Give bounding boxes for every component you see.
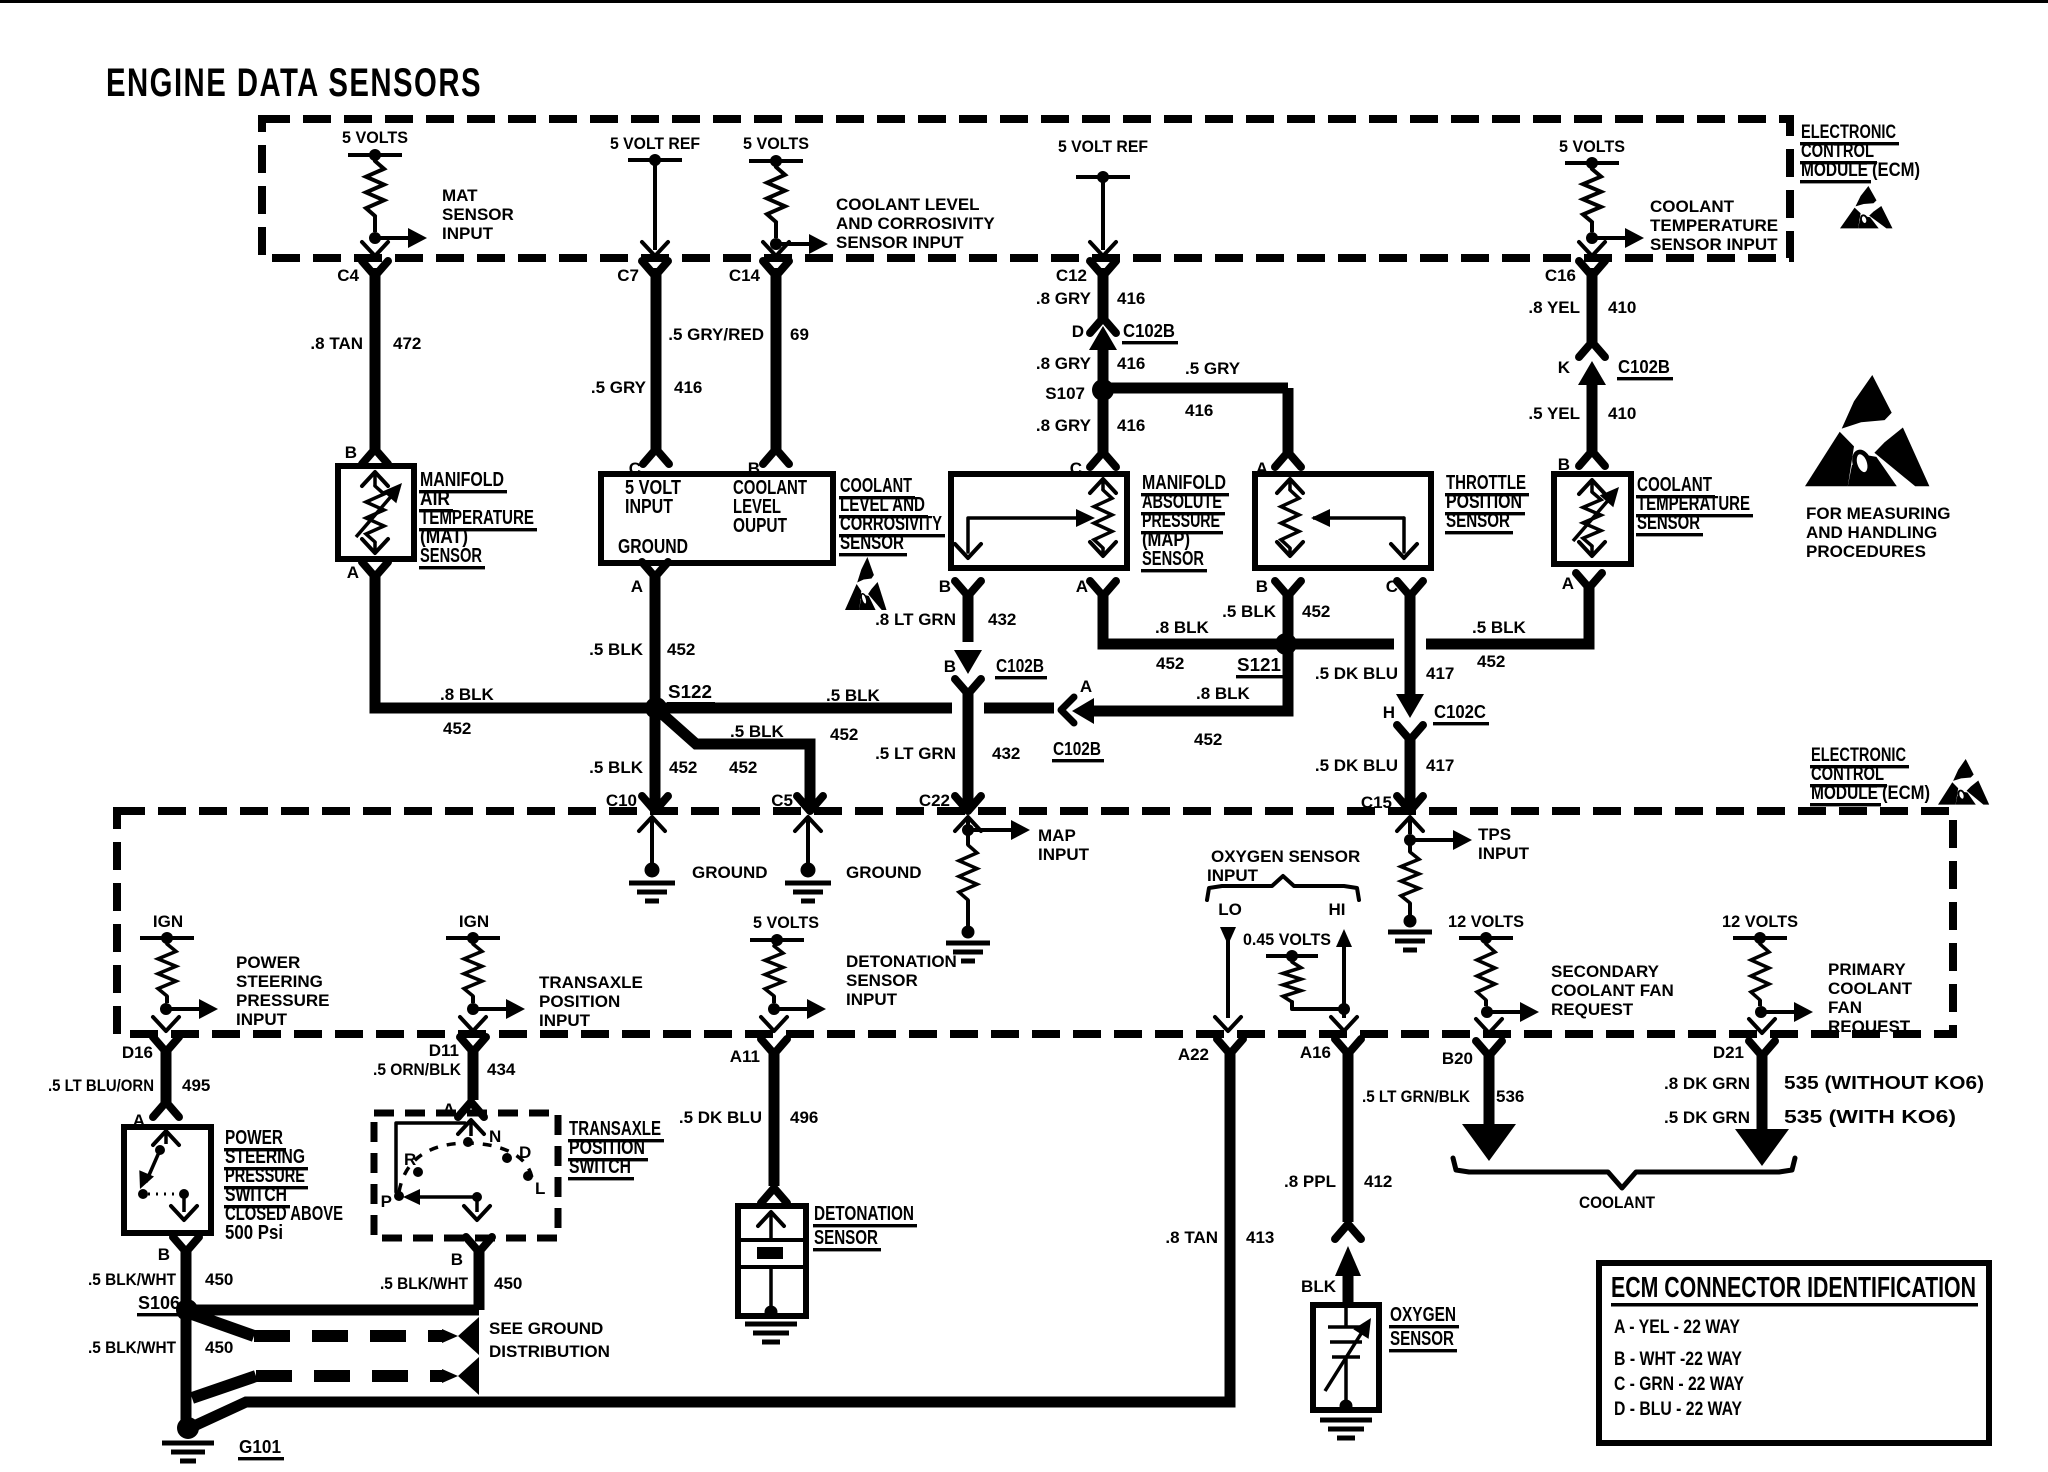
svg-text:.8 LT GRN: .8 LT GRN	[875, 610, 956, 629]
label A (MAT)	[347, 563, 359, 582]
IGN feed (transaxle)	[446, 912, 500, 944]
svg-text:GROUND: GROUND	[846, 863, 922, 882]
svg-text:.5 LT GRN: .5 LT GRN	[875, 744, 956, 763]
svg-text:OXYGEN: OXYGEN	[1390, 1304, 1456, 1326]
svg-text:INPUT: INPUT	[846, 990, 898, 1009]
label .8 BLK 452 (MAP A)	[1155, 618, 1210, 673]
coolant temp internal thermistor	[1573, 480, 1619, 556]
label .5 YEL 410	[1528, 404, 1636, 423]
label FOR MEASURING AND HANDLING PROCEDURES	[1806, 504, 1951, 561]
svg-text:410: 410	[1608, 298, 1636, 317]
svg-text:G101: G101	[239, 1437, 281, 1457]
svg-text:413: 413	[1246, 1228, 1274, 1247]
coolant level A fork	[642, 562, 668, 577]
label .5 LT GRN 432	[875, 744, 1020, 763]
ground MAP input	[946, 943, 990, 961]
primary fan down-arrow	[1749, 1019, 1775, 1033]
svg-text:BLK: BLK	[1301, 1277, 1337, 1296]
svg-text:REQUEST: REQUEST	[1828, 1017, 1911, 1036]
svg-text:C102B: C102B	[1123, 321, 1175, 341]
TPS sensor box	[1255, 474, 1431, 568]
wire TPS B to S121 (.5 BLK 452)	[1283, 590, 1294, 640]
label K C102B	[1558, 357, 1673, 380]
TPS B fork	[1275, 581, 1301, 596]
svg-text:MAT: MAT	[442, 186, 478, 205]
svg-text:0.45 VOLTS: 0.45 VOLTS	[1243, 930, 1331, 949]
svg-text:5 VOLTS: 5 VOLTS	[753, 913, 819, 932]
svg-text:412: 412	[1364, 1172, 1392, 1191]
svg-text:D21: D21	[1713, 1043, 1744, 1062]
wire MAT A to S122 (.8 BLK 452)	[375, 571, 650, 708]
svg-text:A: A	[347, 563, 359, 582]
label C (coolant level)	[629, 459, 641, 478]
svg-text:GROUND: GROUND	[618, 536, 688, 558]
page top border line	[0, 0, 2048, 3]
label B (TPS)	[1256, 577, 1268, 596]
label .5 BLK 452 lower	[589, 758, 697, 777]
label GROUND (C10)	[692, 863, 768, 882]
svg-text:410: 410	[1608, 404, 1636, 423]
svg-text:452: 452	[1302, 602, 1330, 621]
svg-text:B20: B20	[1442, 1049, 1473, 1068]
svg-text:535 (WITH KO6): 535 (WITH KO6)	[1784, 1107, 1956, 1127]
label .8 DK GRN 535 (WITHOUT KO6)	[1664, 1073, 1984, 1093]
coolant temp A fork	[1576, 573, 1602, 588]
5 VOLTS feed (coolant temp)	[1559, 137, 1625, 169]
label COOLANT	[1579, 1193, 1656, 1212]
tap arrow transaxle input	[467, 999, 525, 1019]
svg-text:535 (WITHOUT KO6): 535 (WITHOUT KO6)	[1784, 1073, 1984, 1093]
svg-text:B: B	[451, 1250, 463, 1269]
svg-text:5 VOLTS: 5 VOLTS	[1559, 137, 1625, 156]
tap arrow MAT SENSOR INPUT	[369, 228, 427, 248]
label G101	[238, 1437, 284, 1460]
label .5 GRY/RED 69	[668, 325, 809, 344]
wire A11 to detonation (.5 DK BLU 496)	[761, 1048, 787, 1203]
ground TPS input	[1388, 932, 1432, 950]
label A (MAP)	[1076, 577, 1088, 596]
label D C102B	[1072, 321, 1178, 344]
svg-text:A: A	[1080, 677, 1092, 696]
ECM pin C14	[729, 261, 789, 285]
label H C102C	[1383, 702, 1489, 725]
label R	[404, 1150, 416, 1169]
svg-text:5 VOLT REF: 5 VOLT REF	[1058, 137, 1148, 156]
svg-text:.5 BLK/WHT: .5 BLK/WHT	[380, 1274, 469, 1293]
wire S106 to G101 (.5 BLK/WHT 450)	[181, 1310, 192, 1424]
svg-text:(ECM): (ECM)	[1872, 160, 1920, 181]
svg-text:COOLANT: COOLANT	[1828, 979, 1913, 998]
svg-text:PROCEDURES: PROCEDURES	[1806, 542, 1926, 561]
label OXYGEN SENSOR	[1389, 1304, 1459, 1352]
label C102B (horiz)	[1052, 739, 1104, 762]
ground detonation sensor	[745, 1324, 797, 1342]
wire 5V coolant temp down-arrow	[1579, 242, 1605, 256]
splice S106	[176, 1299, 198, 1321]
oxygen input brace	[1207, 876, 1359, 900]
svg-text:K: K	[1558, 358, 1571, 377]
label .5 BLK/WHT 450 (transaxle)	[380, 1274, 522, 1293]
label A (TPS)	[1256, 459, 1268, 478]
resistor 5V coolant temp	[1583, 169, 1601, 232]
tap arrow coolant temp sensor input	[1586, 228, 1644, 248]
dashed ground run 1	[192, 1314, 444, 1336]
svg-text:A: A	[1562, 574, 1574, 593]
ECM 1 label ELECTRONIC CONTROL MODULE (ECM)	[1800, 122, 1920, 183]
svg-text:416: 416	[674, 378, 702, 397]
svg-text:C7: C7	[617, 266, 639, 285]
wire A16 (.5 LT GRN/BLK ... .8 PPL 412)	[1335, 1048, 1361, 1239]
label .5 BLK/WHT 450 (G101)	[88, 1338, 233, 1357]
svg-text:SECONDARY: SECONDARY	[1551, 962, 1660, 981]
label B (PSP)	[158, 1245, 170, 1264]
svg-text:.5 BLK: .5 BLK	[1222, 602, 1277, 621]
power steering pressure switch box	[124, 1127, 211, 1233]
svg-text:D16: D16	[122, 1043, 153, 1062]
svg-text:SENSOR: SENSOR	[846, 971, 918, 990]
PSP switch internals	[138, 1131, 197, 1220]
svg-text:.5 DK BLU: .5 DK BLU	[1315, 664, 1398, 683]
label D	[519, 1143, 531, 1162]
wire S107 to TPS A (.5 GRY 416)	[1109, 388, 1301, 467]
label .5 DK GRN 535 (WITH KO6)	[1664, 1107, 1956, 1127]
svg-text:B: B	[1256, 577, 1268, 596]
svg-text:ELECTRONIC: ELECTRONIC	[1811, 745, 1906, 766]
splice S122	[645, 697, 667, 719]
svg-text:OUPUT: OUPUT	[733, 515, 787, 537]
wire MAP A to S121 (.8 BLK 452)	[1103, 590, 1280, 644]
ECM pin C4	[337, 261, 388, 285]
svg-text:SENSOR INPUT: SENSOR INPUT	[836, 233, 964, 252]
label B C102B (MAP wire)	[944, 656, 1047, 679]
svg-text:SENSOR INPUT: SENSOR INPUT	[1650, 235, 1778, 254]
ECM pin D11	[429, 1037, 486, 1060]
oxygen sensor BLK arrow	[1335, 1246, 1361, 1303]
svg-text:.8 GRY: .8 GRY	[1036, 354, 1092, 373]
svg-text:OXYGEN SENSOR: OXYGEN SENSOR	[1211, 847, 1360, 866]
label B (coolant temp)	[1558, 455, 1570, 474]
svg-text:SENSOR: SENSOR	[1446, 510, 1510, 532]
tap arrow primary fan	[1755, 1002, 1813, 1022]
label GROUND (C5)	[846, 863, 922, 882]
svg-text:.5 BLK/WHT: .5 BLK/WHT	[88, 1270, 177, 1289]
resistor 5V MAT	[366, 161, 384, 232]
svg-text:FOR MEASURING: FOR MEASURING	[1806, 504, 1951, 523]
resistor MAP input	[959, 830, 977, 939]
label L	[535, 1179, 545, 1198]
detonation sensor box	[738, 1206, 806, 1319]
svg-text:LO: LO	[1218, 900, 1242, 919]
svg-text:L: L	[535, 1179, 545, 1198]
svg-text:417: 417	[1426, 664, 1454, 683]
svg-text:COOLANT FAN: COOLANT FAN	[1551, 981, 1674, 1000]
svg-text:MAP: MAP	[1038, 826, 1076, 845]
svg-text:STEERING: STEERING	[236, 972, 323, 991]
svg-text:S106: S106	[138, 1293, 180, 1313]
dashed ground run 2	[192, 1376, 444, 1398]
svg-text:TPS: TPS	[1478, 825, 1511, 844]
svg-text:.8 DK GRN: .8 DK GRN	[1664, 1074, 1750, 1093]
svg-text:417: 417	[1426, 756, 1454, 775]
svg-text:452: 452	[1477, 652, 1505, 671]
svg-text:PRIMARY: PRIMARY	[1828, 960, 1906, 979]
detonation input down-arrow	[761, 1017, 787, 1031]
svg-text:ECM CONNECTOR IDENTIFICATION: ECM CONNECTOR IDENTIFICATION	[1611, 1272, 1976, 1304]
svg-text:INPUT: INPUT	[625, 496, 673, 518]
svg-text:.5 BLK: .5 BLK	[589, 758, 644, 777]
label MAT SENSOR INPUT	[442, 186, 514, 243]
12 VOLTS feed (primary fan)	[1722, 912, 1798, 944]
wire S121 to coolant temp A (.5 BLK 452)	[1292, 584, 1589, 644]
wire 5V REF C12	[1090, 177, 1116, 256]
resistor 12V primary	[1751, 944, 1769, 1006]
svg-text:SENSOR: SENSOR	[814, 1227, 878, 1249]
label .8 TAN 413	[1165, 1228, 1274, 1247]
transaxle switch internals	[394, 1120, 533, 1220]
label DETONATION SENSOR	[813, 1203, 917, 1251]
resistor 12V secondary	[1477, 944, 1495, 1006]
ESD symbol at coolant level sensor	[845, 557, 887, 610]
svg-text:B: B	[345, 443, 357, 462]
label S122	[667, 682, 715, 705]
label N	[489, 1127, 501, 1146]
svg-text:IGN: IGN	[459, 912, 489, 931]
MAT internal thermistor	[356, 472, 402, 553]
label A (transaxle)	[443, 1100, 455, 1119]
svg-text:C12: C12	[1056, 266, 1087, 285]
label ECM CONNECTOR IDENTIFICATION	[1611, 1272, 1978, 1307]
label SEE GROUND DISTRIBUTION	[489, 1319, 610, 1361]
svg-text:.5 GRY: .5 GRY	[1185, 359, 1241, 378]
label LO	[1218, 900, 1242, 919]
svg-text:452: 452	[443, 719, 471, 738]
svg-text:.5 BLK/WHT: .5 BLK/WHT	[88, 1338, 177, 1357]
connector C102B pin K (inline arrow)	[1578, 361, 1606, 451]
svg-text:TEMPERATURE: TEMPERATURE	[1650, 216, 1778, 235]
ECM pin D16	[122, 1037, 179, 1062]
5 VOLTS feed (MAT)	[342, 128, 408, 161]
svg-text:472: 472	[393, 334, 421, 353]
label B (MAP)	[939, 577, 951, 596]
svg-text:REQUEST: REQUEST	[1551, 1000, 1634, 1019]
MAP sensor box	[951, 474, 1127, 568]
resistor IGN PSP	[158, 944, 176, 1003]
MAP internal potentiometer	[955, 479, 1116, 558]
ESD symbol at ECM 2 label	[1938, 759, 1989, 805]
connector C102C H fork	[1397, 725, 1423, 740]
svg-text:R: R	[404, 1150, 416, 1169]
resistor 5V detonation	[765, 946, 783, 1003]
svg-text:B - WHT -22 WAY: B - WHT -22 WAY	[1614, 1349, 1742, 1370]
svg-text:C102C: C102C	[1434, 702, 1486, 722]
label .5 BLK 452 (C5 branch)	[729, 722, 785, 777]
label TRANSAXLE POSITION INPUT	[539, 973, 643, 1030]
svg-text:434: 434	[487, 1060, 516, 1079]
ECM pin C22	[919, 791, 981, 811]
connector C102B pin D (inline arrow)	[1089, 326, 1117, 390]
svg-text:416: 416	[1117, 289, 1145, 308]
label POWER STEERING PRESSURE SWITCH CLOSED ABOVE 500 Psi	[224, 1127, 343, 1244]
wire K to coolant temp B fork	[1579, 451, 1605, 466]
svg-text:TRANSAXLE: TRANSAXLE	[539, 973, 643, 992]
title ENGINE DATA SENSORS	[106, 61, 482, 105]
svg-text:SENSOR: SENSOR	[1637, 512, 1700, 534]
ECM module 2 dashed border	[117, 811, 1953, 1034]
label COOLANT TEMPERATURE SENSOR INPUT	[1650, 197, 1778, 254]
5 VOLTS feed (coolant level)	[743, 134, 809, 167]
12 VOLTS feed (secondary fan)	[1448, 912, 1524, 944]
MAP input lead	[955, 817, 1030, 840]
svg-text:.5 DK BLU: .5 DK BLU	[679, 1108, 762, 1127]
svg-text:5 VOLT REF: 5 VOLT REF	[610, 134, 700, 153]
svg-text:452: 452	[830, 725, 858, 744]
svg-text:536: 536	[1496, 1087, 1524, 1106]
svg-text:.5 ORN/BLK: .5 ORN/BLK	[373, 1060, 462, 1079]
svg-text:SENSOR: SENSOR	[420, 545, 482, 567]
svg-text:.5 DK GRN: .5 DK GRN	[1664, 1108, 1750, 1127]
svg-text:C102B: C102B	[1053, 739, 1101, 759]
svg-text:.8 BLK: .8 BLK	[1196, 684, 1251, 703]
svg-text:INPUT: INPUT	[442, 224, 494, 243]
label .8 PPL 412	[1284, 1172, 1392, 1191]
label .5 BLK 452 (S122-A)	[826, 686, 881, 744]
label C (MAP)	[1070, 459, 1082, 478]
svg-text:.5 BLK: .5 BLK	[589, 640, 644, 659]
ECM pin C15	[1361, 793, 1423, 812]
svg-text:500 Psi: 500 Psi	[225, 1222, 283, 1244]
label MAP INPUT	[1038, 826, 1090, 864]
svg-text:12 VOLTS: 12 VOLTS	[1722, 912, 1798, 931]
svg-text:S121: S121	[1237, 655, 1281, 675]
ECM pin C10	[606, 791, 668, 811]
IGN feed (power steering)	[140, 912, 194, 944]
svg-text:SWITCH: SWITCH	[569, 1156, 631, 1178]
wire S106 to transaxle B	[187, 1305, 479, 1316]
svg-text:416: 416	[1117, 354, 1145, 373]
label TRANSAXLE POSITION SWITCH	[568, 1118, 664, 1180]
tap arrow PSP input	[160, 999, 218, 1019]
label COOLANT LEVEL AND CORROSIVITY SENSOR INPUT	[836, 195, 995, 252]
label COOLANT LEVEL AND CORROSIVITY SENSOR	[839, 475, 945, 556]
wire D21 (DK GRN 535)	[1735, 1050, 1789, 1166]
svg-text:N: N	[489, 1127, 501, 1146]
MAP A fork	[1090, 581, 1116, 596]
label .8 GRY 416 upper	[1036, 289, 1145, 308]
svg-text:C15: C15	[1361, 793, 1392, 812]
svg-text:495: 495	[182, 1076, 210, 1095]
oxygen sensor box	[1313, 1305, 1379, 1413]
svg-text:416: 416	[1185, 401, 1213, 420]
label .8 BLK 452 (A-S121)	[1194, 684, 1251, 749]
svg-text:.8 BLK: .8 BLK	[1155, 618, 1210, 637]
label A (C102B horiz)	[1080, 677, 1092, 696]
wire connector A to S121 (.8 BLK 452)	[1096, 644, 1288, 711]
resistor IGN transaxle	[464, 944, 482, 1003]
svg-text:C - GRN - 22 WAY: C - GRN - 22 WAY	[1614, 1374, 1744, 1395]
svg-text:12 VOLTS: 12 VOLTS	[1448, 912, 1524, 931]
wire B20 (.5 LT GRN/BLK 536)	[1462, 1050, 1516, 1161]
svg-text:CONTROL: CONTROL	[1811, 764, 1884, 785]
svg-text:SENSOR: SENSOR	[1142, 548, 1204, 570]
coolant brace	[1453, 1158, 1795, 1188]
5 VOLT REF feed (C7)	[610, 134, 700, 166]
svg-text:DETONATION: DETONATION	[846, 952, 957, 971]
label B (transaxle)	[451, 1250, 463, 1269]
svg-text:INPUT: INPUT	[1038, 845, 1090, 864]
wire transaxle B down	[474, 1248, 485, 1310]
svg-text:C5: C5	[771, 791, 793, 810]
wire D16 to PSP A (.5 LT BLU/ORN 495)	[153, 1046, 179, 1117]
svg-text:452: 452	[667, 640, 695, 659]
label .5 BLK 452 (TPS B)	[1222, 602, 1330, 621]
wire coolant level A to C10 (.5 BLK 452)	[650, 571, 661, 806]
svg-text:452: 452	[1156, 654, 1184, 673]
svg-text:.8 BLK: .8 BLK	[440, 685, 495, 704]
svg-text:A11: A11	[730, 1047, 760, 1066]
svg-text:C102B: C102B	[996, 656, 1044, 676]
svg-text:COOLANT: COOLANT	[1650, 197, 1735, 216]
MAT sensor box	[338, 466, 414, 559]
ECM pin B20	[1442, 1041, 1502, 1068]
wire D11 to transaxle A (.5 ORN/BLK 434)	[458, 1046, 484, 1117]
5 VOLTS feed (detonation)	[750, 913, 819, 946]
ECM pin C12	[1056, 261, 1116, 285]
svg-text:.5 GRY/RED: .5 GRY/RED	[668, 325, 764, 344]
svg-text:450: 450	[494, 1274, 522, 1293]
wire 5V REF C7	[642, 160, 668, 256]
svg-text:C4: C4	[337, 266, 359, 285]
label S106	[137, 1293, 183, 1316]
wire TPS C to H (.5 DK BLU 417)	[1394, 590, 1426, 718]
svg-text:(ECM): (ECM)	[1882, 783, 1930, 804]
5 VOLT REF feed (C12)	[1058, 137, 1148, 183]
inline connector A C102B (horizontal)	[1061, 697, 1098, 724]
svg-text:A16: A16	[1300, 1043, 1331, 1062]
resistor TPS input	[1401, 840, 1419, 928]
svg-text:.8 PPL: .8 PPL	[1284, 1172, 1336, 1191]
ESD symbol at ECM 1 label	[1840, 186, 1893, 228]
wire C14 to coolant level B (.5 GRY/RED 69)	[763, 268, 789, 464]
svg-text:.8 GRY: .8 GRY	[1036, 416, 1092, 435]
svg-text:POSITION: POSITION	[539, 992, 620, 1011]
label THROTTLE POSITION SENSOR	[1445, 472, 1529, 534]
label MANIFOLD AIR TEMPERATURE (MAT) SENSOR	[419, 469, 537, 569]
svg-text:69: 69	[790, 325, 809, 344]
svg-text:.5 BLK: .5 BLK	[730, 722, 785, 741]
ECM pin A11	[730, 1039, 787, 1066]
svg-text:.8 TAN: .8 TAN	[310, 334, 363, 353]
label A (PSP)	[133, 1111, 145, 1130]
PSP B fork	[173, 1237, 199, 1252]
TPS input lead	[1397, 817, 1472, 850]
ground lead C10	[629, 817, 675, 901]
label .5 DK BLU 417 upper	[1315, 664, 1455, 683]
svg-text:COOLANT: COOLANT	[1579, 1193, 1656, 1212]
HI lead	[1331, 929, 1357, 1031]
ground G101	[162, 1417, 214, 1461]
label .8 GRY 416 mid	[1036, 354, 1145, 373]
svg-text:SENSOR: SENSOR	[1390, 1328, 1454, 1350]
ECM pin C7	[617, 261, 668, 285]
large ESD symbol	[1805, 375, 1929, 486]
svg-text:496: 496	[790, 1108, 818, 1127]
TPS internal potentiometer	[1277, 479, 1417, 558]
connector C102B B fork	[955, 679, 981, 694]
svg-text:ELECTRONIC: ELECTRONIC	[1801, 122, 1896, 143]
label .5 LT GRN/BLK 536	[1362, 1087, 1524, 1106]
label .5 ORN/BLK 434	[373, 1060, 516, 1079]
svg-text:416: 416	[1117, 416, 1145, 435]
